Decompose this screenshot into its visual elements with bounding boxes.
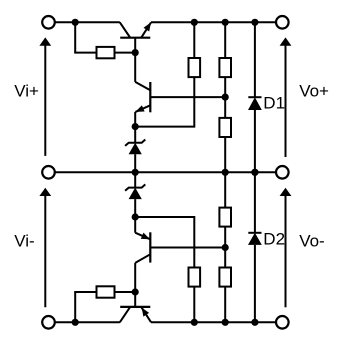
wire Q3 collector down to Q4 base bbox=[134, 263, 136, 292]
transistor Q2 base bar bbox=[149, 82, 151, 112]
arrow Vo+ bbox=[280, 37, 292, 157]
zener diode Z2 cathode lead bbox=[134, 172, 136, 187]
transistor Q1 base bar bbox=[120, 37, 150, 39]
zener diode Z2 bbox=[125, 184, 145, 199]
zener diode Z1 bbox=[125, 140, 145, 155]
wire junction to R2 bottom (jog) bbox=[135, 77, 194, 128]
transistor Q4 collector bbox=[120, 307, 130, 322]
transistor Q3 collector bbox=[135, 254, 150, 263]
transistor Q2 base wire to R3/R4 junction bbox=[150, 96, 225, 98]
wire Q2 emitter down to junction bbox=[134, 112, 136, 127]
junction dot mid rail / D2 bbox=[251, 169, 258, 176]
resistor R6 bbox=[219, 208, 231, 227]
resistor R8 bbox=[97, 286, 115, 297]
diode D2 bbox=[248, 233, 262, 245]
wire R7 bottom lead to rail bbox=[224, 287, 226, 323]
junction dot Q1 base / R1 bbox=[132, 49, 139, 56]
wire D2 cathode lead bbox=[254, 172, 256, 233]
transistor Q1 collector bbox=[120, 22, 130, 37]
transistor Q3 emitter with arrow bbox=[135, 233, 150, 240]
arrow Vo- bbox=[280, 188, 292, 308]
wire R3 top lead bbox=[224, 22, 226, 58]
junction dot top rail / R2 bbox=[191, 19, 198, 26]
wire R1 to Q1 base junction bbox=[115, 52, 136, 54]
svg-text:Vo+: Vo+ bbox=[299, 82, 329, 101]
wire left jog vertical + horizontal into R1 bbox=[74, 21, 96, 52]
junction dot Q4 base / R8 bbox=[132, 288, 139, 295]
wire junction to R5 top (jog) bbox=[135, 216, 194, 268]
terminal Vo+ top-right bbox=[276, 16, 289, 29]
wire left jog to R8 bbox=[74, 292, 96, 323]
terminal Vo- bottom-right bbox=[276, 316, 289, 329]
wire Z1 anode lead to mid rail bbox=[134, 154, 136, 172]
terminal Vi- bottom-left bbox=[42, 316, 55, 329]
wire R8 to Q4 base junction bbox=[115, 291, 136, 293]
wire R6 to base junction bbox=[224, 227, 226, 248]
diode D1 bbox=[248, 97, 262, 110]
transistor Q4 base bar bbox=[120, 306, 150, 308]
junction dot mid rail / D1 bbox=[251, 169, 258, 176]
resistor R2 bbox=[189, 58, 201, 77]
wire R4 top lead bbox=[224, 97, 226, 118]
junction dot bottom rail / R5 bbox=[191, 319, 198, 326]
junction dot Q3 base / R6 / R7 bbox=[222, 244, 229, 251]
wire Z1 cathode lead bbox=[134, 127, 136, 143]
wire D1 anode lead to mid rail bbox=[254, 110, 256, 172]
resistor R1 bbox=[97, 47, 115, 58]
wire Q3 emitter from junction bbox=[134, 217, 136, 233]
wire R3 to base junction bbox=[224, 77, 226, 97]
wire R5 bottom lead to rail bbox=[193, 287, 195, 323]
junction dot top rail / R3 bbox=[222, 19, 229, 26]
wire Q4 base lead bbox=[134, 292, 136, 307]
junction dot bottom rail at left jog bbox=[72, 319, 79, 326]
resistor R7 bbox=[219, 268, 231, 287]
transistor Q3 base bar bbox=[149, 232, 151, 262]
resistor R4 bbox=[219, 118, 231, 137]
transistor Q2 emitter with arrow bbox=[135, 105, 150, 112]
arrow Vi+ bbox=[39, 37, 51, 155]
wire D2 anode lead to bottom rail bbox=[254, 245, 256, 322]
terminal common mid-right bbox=[276, 166, 289, 179]
transistor Q2 collector bbox=[135, 82, 150, 90]
wire top rail right segment bbox=[151, 21, 276, 23]
junction dot Q3 emitter / R5 / Z2 bbox=[132, 213, 139, 220]
junction dot Q2 emitter / R2 / Z1 bbox=[132, 123, 139, 130]
svg-text:D2: D2 bbox=[263, 229, 285, 248]
transistor Q4 emitter with arrow bbox=[141, 307, 151, 322]
wire Q1 base lead bbox=[134, 38, 136, 53]
junction dot mid rail / R6 col bbox=[222, 169, 229, 176]
junction dot Q2 base / R3 / R4 bbox=[222, 94, 229, 101]
terminal common mid-left bbox=[42, 166, 55, 179]
wire Z2 anode lead bbox=[134, 199, 136, 217]
wire R4 bottom lead to mid rail bbox=[224, 137, 226, 172]
junction dot top rail at left jog bbox=[72, 19, 79, 26]
terminal Vi+ top-left bbox=[42, 16, 55, 29]
resistor R5 bbox=[189, 268, 201, 287]
svg-text:D1: D1 bbox=[263, 94, 285, 113]
wire R6 top lead bbox=[224, 172, 226, 207]
wire Q1 base down to Q2 collector bbox=[134, 53, 136, 82]
junction dot mid rail / zeners bbox=[132, 169, 139, 176]
wire R7 top lead bbox=[224, 248, 226, 268]
wire bottom rail left segment bbox=[55, 321, 120, 323]
arrow Vi- bbox=[39, 188, 51, 308]
transistor Q3 base wire to R6/R7 junction bbox=[150, 247, 225, 249]
wire bottom rail right segment bbox=[151, 321, 276, 323]
junction dot top rail / D1 bbox=[251, 19, 258, 26]
wire mid rail bbox=[55, 171, 276, 173]
resistor R3 bbox=[219, 58, 231, 77]
wire R2 top lead to rail bbox=[193, 22, 195, 58]
transistor Q1 emitter with arrow bbox=[141, 22, 151, 37]
wire top rail left segment bbox=[55, 21, 120, 23]
svg-text:Vo-: Vo- bbox=[299, 232, 325, 251]
svg-text:Vi+: Vi+ bbox=[14, 82, 39, 101]
junction dot bottom rail / R7 bbox=[222, 319, 229, 326]
junction dot bottom rail / D2 bbox=[251, 319, 258, 326]
svg-text:Vi-: Vi- bbox=[14, 232, 34, 251]
wire D1 cathode lead bbox=[254, 22, 256, 97]
